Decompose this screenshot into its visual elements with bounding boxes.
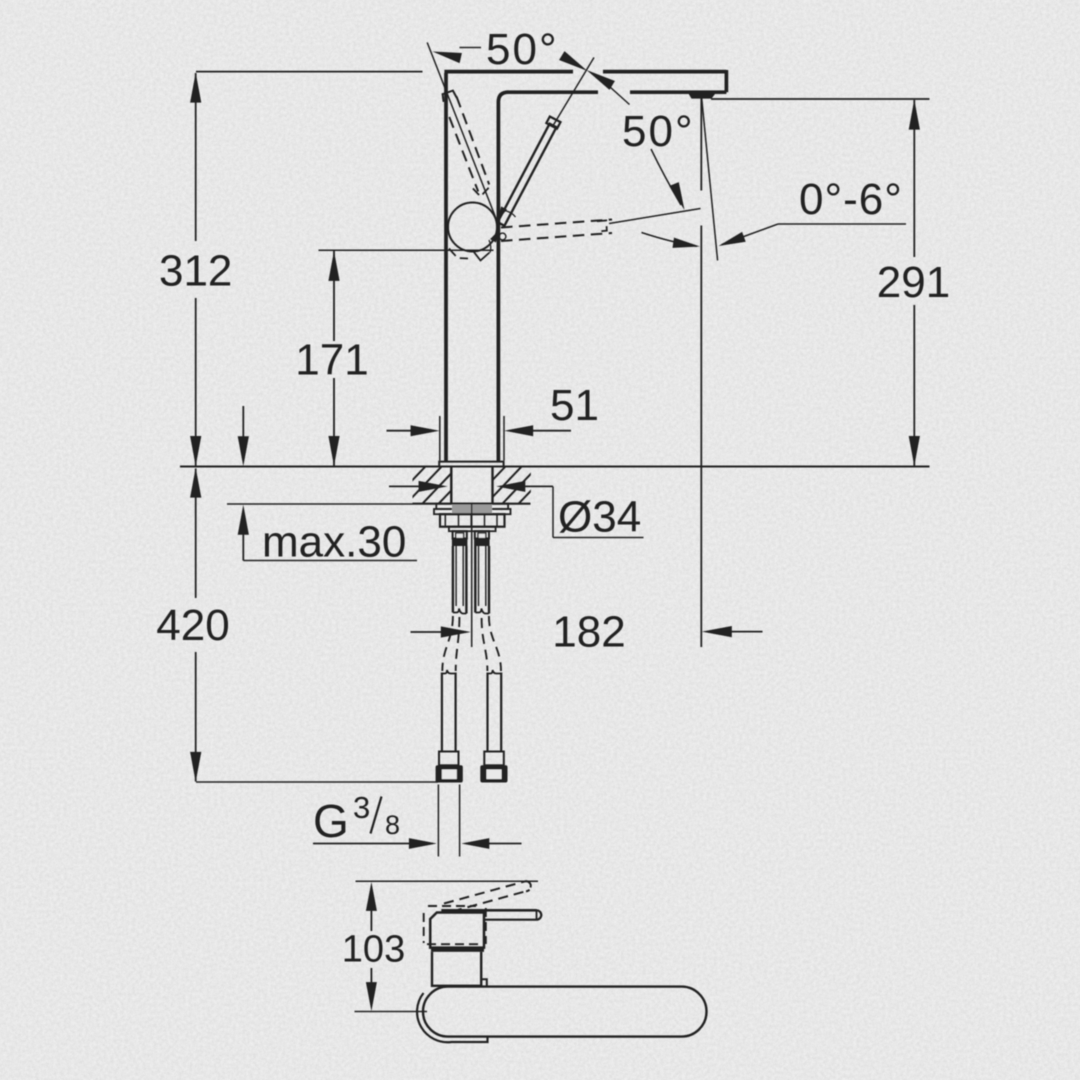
hose end collars [439,752,504,766]
tilted 6-deg line [702,98,718,261]
dimension G3/8: extension lines [438,785,459,857]
nut lower step [449,527,496,532]
hose connector collars (filled) [452,539,490,547]
svg-text:182: 182 [552,608,625,657]
leader arrow for upper 50-deg label [433,48,482,64]
dimension max.30: text and underline [243,518,417,567]
dimension G3/8: dimension line and arrows [313,838,522,849]
countertop underside line (thick, at hatch) [413,503,531,505]
hose connector heads [453,531,489,538]
dimension 171: text [295,336,368,385]
dashed lever (raised 50-deg position) [443,91,490,197]
top view: closed handle bar [441,910,541,919]
vertical extension line from aerator [700,99,702,648]
svg-text:Ø34: Ø34 [558,493,641,542]
thin axis line of raised lever [427,43,497,222]
mounting shank through counter [451,467,492,504]
pivot ball circle [448,203,497,252]
dimension 291: dimension line and arrows [909,100,920,466]
dimension 291: text [877,258,950,307]
dashed lever (open position, horizontal) [501,220,612,242]
dimension 171: dimension line and arrows [328,251,339,466]
dimension max.30: arrows [238,406,249,561]
leader arrow for lower 50-deg label [651,149,685,210]
dimension 182: text [552,608,625,657]
dimension 103: extension lines [355,881,539,1011]
top view: dashed raised handle [444,881,531,911]
counter cross-section hatching right [435,464,637,506]
dimension 312: text [159,247,232,296]
svg-text:312: 312 [159,247,232,296]
flexible hose curves (dashed) [442,616,501,671]
small arc arrows at pivot [489,206,516,252]
hose end nuts (G3/8) [436,765,508,782]
supply hoses (straight) [442,670,501,752]
countertop line [180,466,930,468]
label G 3/8 [313,790,400,847]
label 50 deg (upper) [486,25,559,74]
mounting nut [440,514,505,527]
svg-text:max.30: max.30 [262,518,406,567]
50-degree arc arrowheads on lever centerline [559,51,629,104]
dimension dia34: arrows [389,481,553,492]
top view: body block [432,952,487,986]
svg-text:291: 291 [877,258,950,307]
top view: dark band between body and cartridge [431,948,484,952]
dimension 182: right arrow [702,626,763,637]
faucet body column [446,73,508,461]
svg-text:171: 171 [295,336,368,385]
dimension 103: dimension line and arrows [366,882,377,1011]
svg-text:8: 8 [385,810,400,840]
svg-text:0°-6°: 0°-6° [799,175,903,224]
dimension 182: left arrow [411,626,471,637]
svg-text:3: 3 [353,790,370,825]
dimension 51: dimension line and arrows [387,425,572,436]
base plate of body [439,462,503,466]
dimension 171: extension line [319,249,494,251]
svg-text:50°: 50° [622,107,695,156]
dimension 103: text [342,929,405,971]
svg-text:420: 420 [156,601,229,650]
label 50 deg (lower) [622,107,695,156]
aerator outlet (filled) [688,92,717,99]
top view: spout stadium outline [423,987,707,1037]
top view: dashed handle base square [424,906,486,944]
dashes below pivot ball [449,249,490,261]
svg-text:103: 103 [342,929,405,971]
svg-text:G: G [313,795,349,847]
leader for 0-6 deg label [719,224,907,246]
dimension dia34: leader and text [553,486,644,541]
top view: cartridge housing [430,913,484,948]
dimension 420: bottom extension line [196,781,438,783]
lever handle (closed position, solid) [498,117,561,226]
washer plates under counter [434,504,511,515]
faucet spout bar [444,70,726,92]
top view: escutcheon outer arc [417,993,487,1042]
dimension 420: dimension line and arrows [190,468,201,782]
svg-text:50°: 50° [486,25,559,74]
dimension 51: text [550,381,599,430]
dimension 291: extension line [711,98,930,100]
label 0-6 deg [799,175,903,224]
faucet centerline [471,505,473,648]
counter cross-section hatching left [355,464,557,506]
dimension 420: text [156,601,229,650]
lever centerline extension [553,58,595,127]
dimension 51: extension lines [440,416,504,461]
dimension 312: dimension line and arrows [190,73,201,466]
dimension 312: extension line [196,71,423,73]
0-6 deg swing arc with arrow [642,233,701,248]
open lever axis thin line [609,209,701,224]
countertop underside line (left) [227,503,413,505]
threaded stud tubes [453,546,489,614]
svg-text:51: 51 [550,381,599,430]
